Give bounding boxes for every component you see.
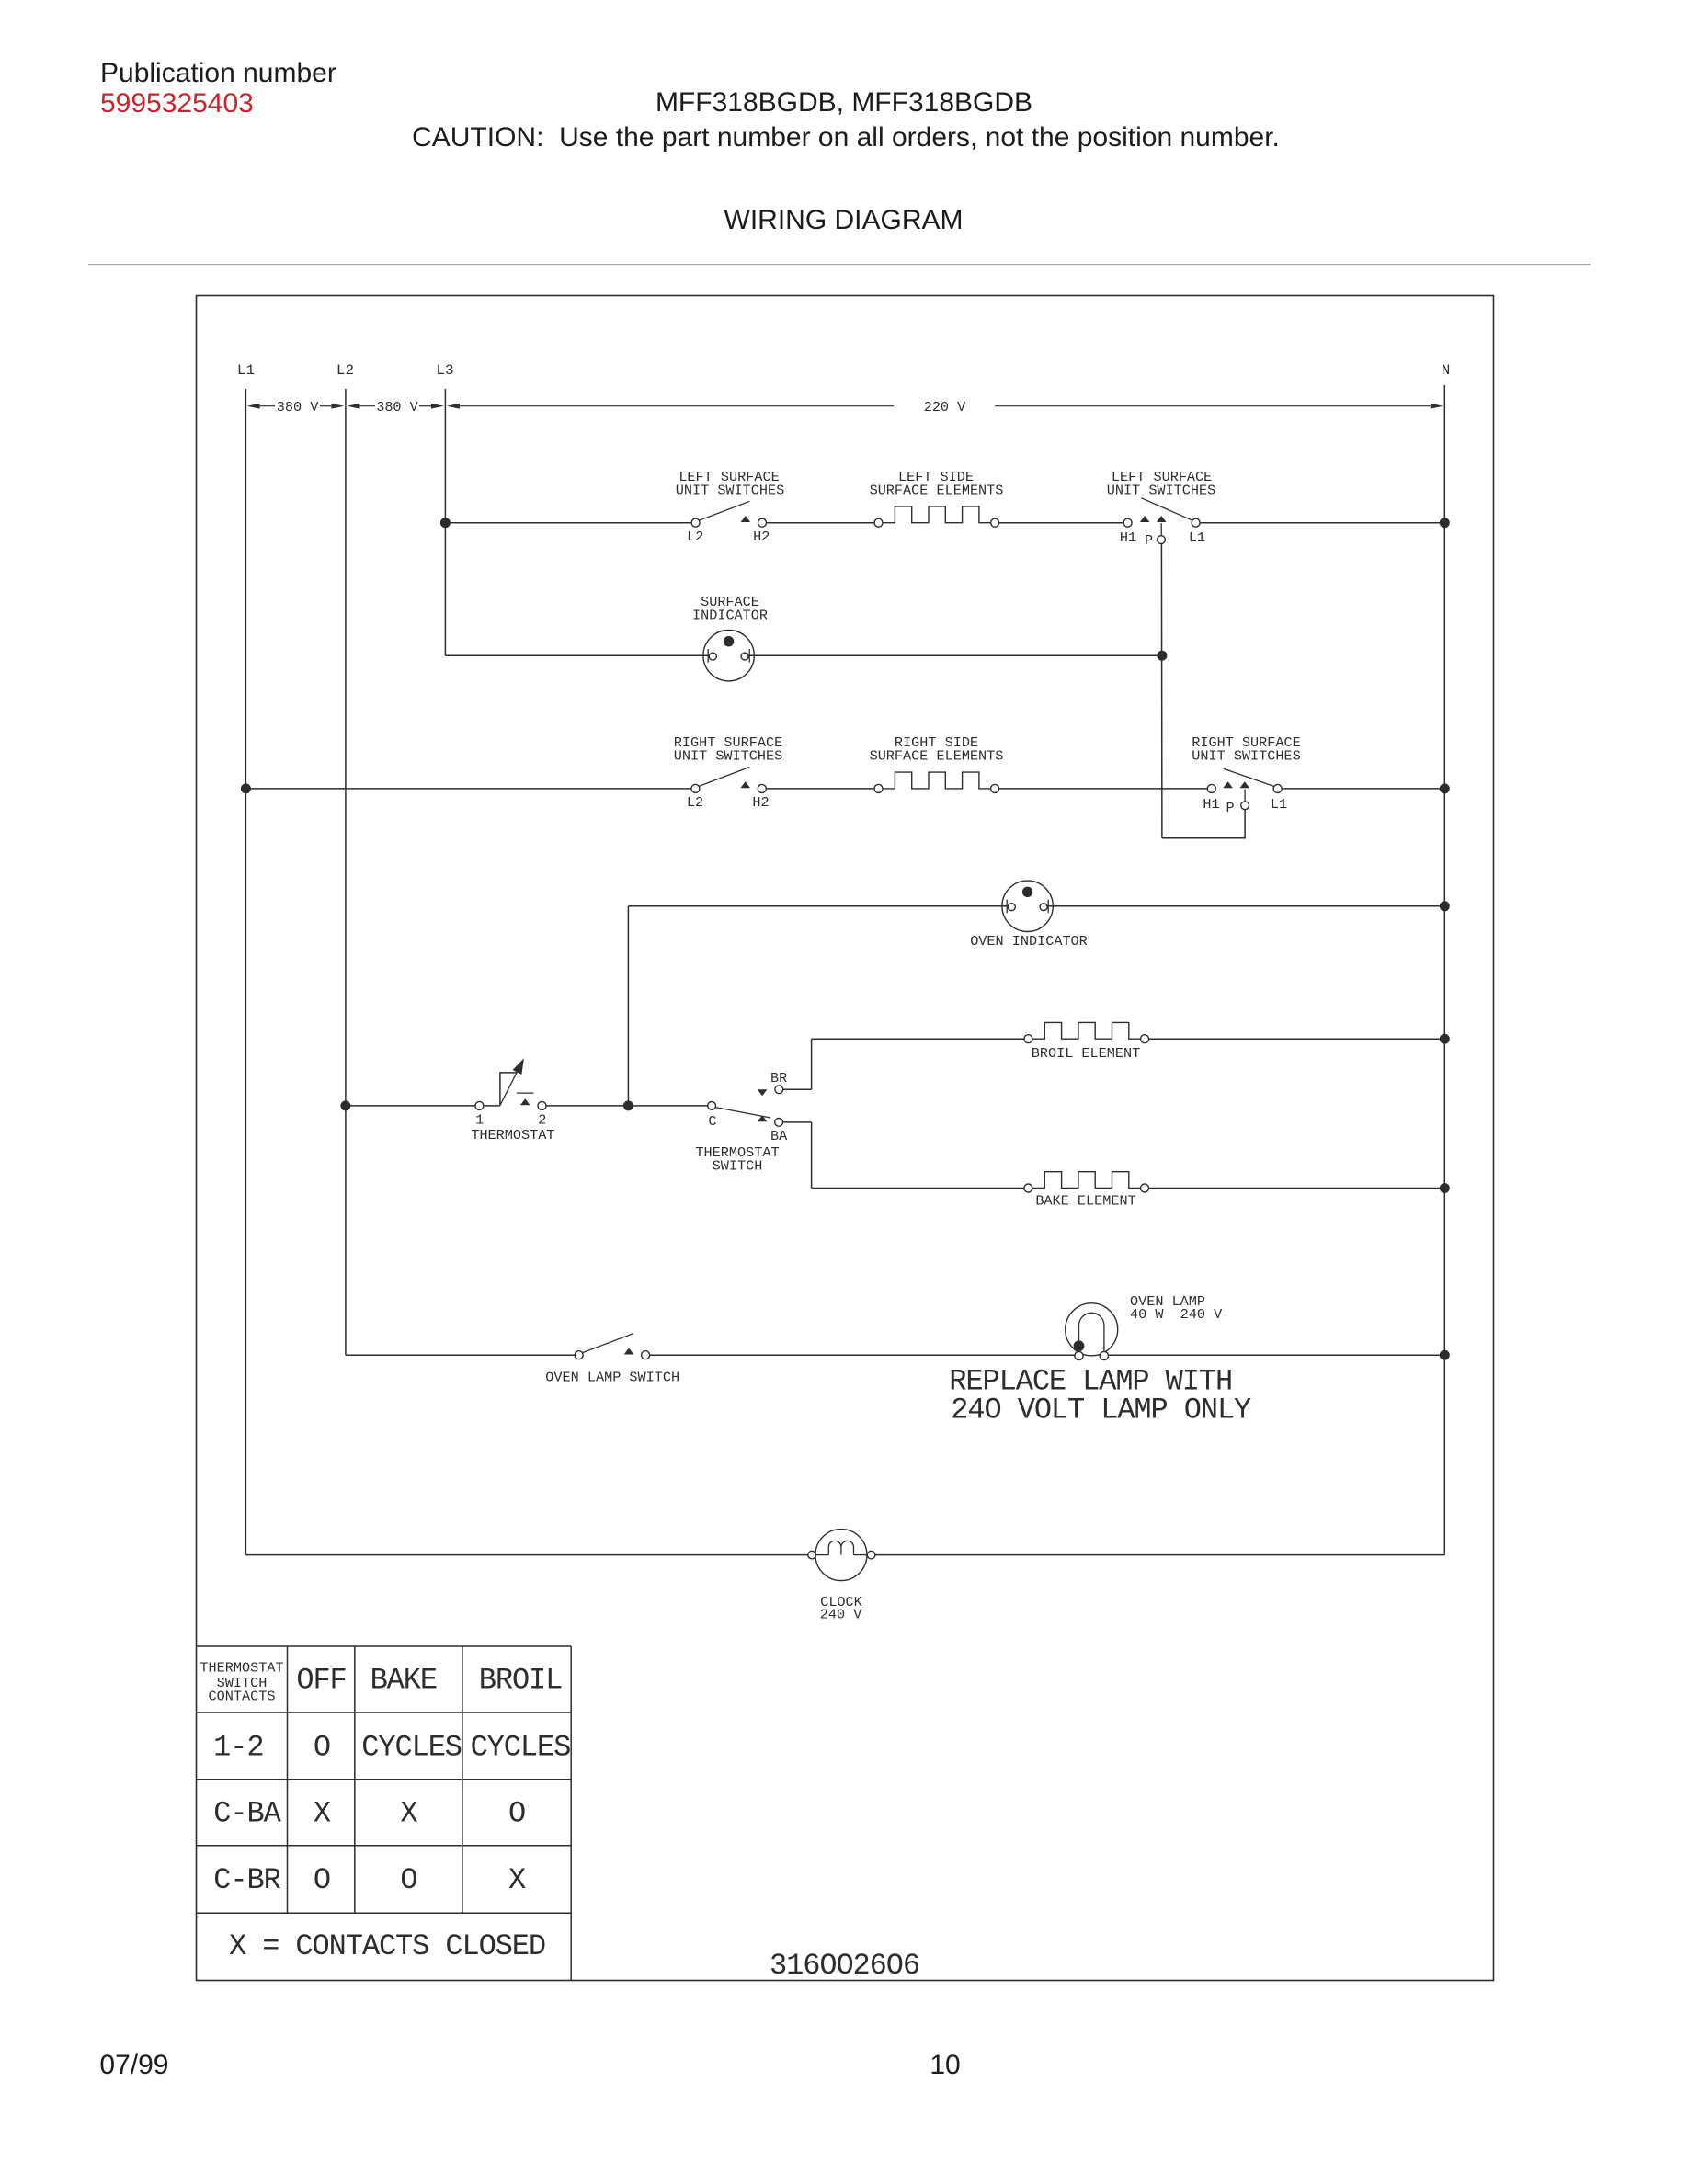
wire row2 element to right switch <box>999 788 1208 790</box>
wire L3 corner to surface indicator <box>445 654 708 656</box>
oven lamp terminal dot <box>1074 1341 1084 1351</box>
svg-text:316OO26O6: 316OO26O6 <box>770 1949 919 1983</box>
bus line L1 <box>245 389 246 1555</box>
wire row1 from L1 contact to N <box>1200 522 1444 524</box>
dimension wire L2-L3 left part <box>359 405 375 407</box>
svg-text:THERMOSTAT: THERMOSTAT <box>471 1127 554 1143</box>
svg-text:UNIT SWITCHES: UNIT SWITCHES <box>674 748 782 765</box>
switch: right surface unit switch L2-H2 contact mark <box>740 781 750 788</box>
switch: left surface unit switch L2-H2 contact mark <box>741 516 751 522</box>
switch: left surface unit switch L2-H2 blade <box>699 501 749 520</box>
svg-text:X: X <box>400 1797 417 1831</box>
svg-text:SWITCH: SWITCH <box>713 1157 763 1174</box>
svg-text:BAKE: BAKE <box>371 1664 437 1698</box>
clock motor body <box>815 1530 867 1581</box>
svg-text:MFF318BGDB, MFF318BGDB: MFF318BGDB, MFF318BGDB <box>656 87 1032 118</box>
svg-text:L1: L1 <box>1189 529 1205 546</box>
switch: right surface unit switch L2-H2 pivot contact <box>691 784 700 792</box>
svg-text:O: O <box>314 1863 330 1897</box>
switch row2 pilot contact P <box>1244 789 1246 802</box>
wire row2 from L1 contact to N <box>1282 788 1444 790</box>
thermostat contact 2 <box>538 1101 546 1109</box>
svg-text:OVEN LAMP SWITCH: OVEN LAMP SWITCH <box>545 1370 679 1386</box>
wire BA to bake riser <box>783 1121 812 1123</box>
oven lamp terminals <box>1075 1351 1083 1359</box>
thermostat switch common contact C <box>708 1102 716 1110</box>
switch H1-P-L1 blade <box>1141 498 1192 521</box>
clock motor right terminal <box>867 1551 875 1559</box>
thermostat contact mark <box>520 1098 530 1105</box>
thermostat actuator arrow <box>500 1068 519 1105</box>
switch H1-P-L1 contact marks <box>1140 516 1150 522</box>
dimension arrows at L3 <box>431 404 444 409</box>
wire broil riser <box>811 1039 813 1089</box>
wire L2 corner to oven lamp switch <box>346 1354 575 1356</box>
wire surface indicator to P drop <box>749 654 1162 656</box>
svg-text:BA: BA <box>770 1128 788 1144</box>
node: junction indicator wire / P drop line <box>1158 651 1167 660</box>
oven indicator lamp body <box>1002 881 1053 931</box>
svg-text:10: 10 <box>930 2050 960 2080</box>
svg-text:P: P <box>1145 532 1153 549</box>
switch: right surface unit switch H1-P-L1 fixed contact H1 <box>1207 784 1215 792</box>
svg-text:Publication number: Publication number <box>100 58 336 88</box>
switch H1-P-L1 pivot contact L1 <box>1192 518 1200 527</box>
wire thermostat 1 to riser <box>484 1105 500 1107</box>
thermostat switch bake contact BA <box>775 1119 783 1127</box>
svg-text:C-BR: C-BR <box>213 1863 280 1897</box>
svg-text:07/99: 07/99 <box>99 2050 168 2080</box>
heating element: broil element terminals and coil <box>1024 1035 1032 1043</box>
switch: left surface unit switch L2-H2 pivot contact <box>691 518 700 527</box>
dimension wire L1-L2 right part <box>320 405 331 407</box>
svg-text:UNIT SWITCHES: UNIT SWITCHES <box>676 483 784 499</box>
wire: P hook rise to row2 P contact <box>1244 810 1246 838</box>
svg-text:SURFACE ELEMENTS: SURFACE ELEMENTS <box>870 483 1004 499</box>
svg-text:O: O <box>314 1731 330 1765</box>
node: junction row2 / N <box>1440 784 1449 793</box>
svg-text:40 W 240 V: 40 W 240 V <box>1130 1306 1223 1323</box>
svg-text:INDICATOR: INDICATOR <box>692 608 768 624</box>
switch H1-P-L1 pilot contact P <box>1160 523 1162 536</box>
svg-text:O: O <box>400 1863 416 1897</box>
wire row1 element to right switch <box>999 522 1124 524</box>
surface indicator lamp body <box>703 631 754 681</box>
bus line N (neutral) <box>1443 385 1445 1555</box>
svg-text:220 V: 220 V <box>924 399 966 415</box>
svg-text:CONTACTS: CONTACTS <box>209 1689 276 1705</box>
thermostat switch BA contact mark <box>758 1115 768 1121</box>
wire oven indicator horizontal left part <box>628 905 1007 907</box>
svg-text:BAKE ELEMENT: BAKE ELEMENT <box>1035 1193 1135 1210</box>
node: junction oven lamp / N <box>1440 1350 1449 1359</box>
svg-text:1: 1 <box>475 1112 484 1129</box>
switch row2 contact marks <box>1223 781 1233 788</box>
svg-text:CYCLES: CYCLES <box>361 1731 462 1765</box>
svg-text:H2: H2 <box>753 529 770 545</box>
svg-text:BROIL ELEMENT: BROIL ELEMENT <box>1032 1045 1140 1062</box>
svg-text:N: N <box>1442 362 1451 379</box>
svg-text:UNIT SWITCHES: UNIT SWITCHES <box>1192 748 1300 765</box>
node: junction L1 / row2 <box>241 784 250 793</box>
svg-text:L3: L3 <box>436 362 453 379</box>
thermostat switch BR contact mark <box>758 1089 768 1096</box>
wire row1 switch to element <box>767 522 875 524</box>
svg-text:UNIT SWITCHES: UNIT SWITCHES <box>1107 483 1215 499</box>
oven indicator lamp right terminal <box>1047 900 1049 914</box>
wire oven lamp switch to lamp <box>650 1354 1075 1356</box>
svg-text:CYCLES: CYCLES <box>471 1731 571 1765</box>
switch row2 blade <box>1224 768 1274 786</box>
svg-text:H1: H1 <box>1203 796 1219 813</box>
switch: left surface unit switch L2-H2 fixed contact <box>758 518 767 527</box>
svg-text:C-BA: C-BA <box>213 1797 281 1831</box>
svg-text:X: X <box>314 1797 331 1831</box>
svg-text:BROIL: BROIL <box>479 1664 563 1698</box>
node: junction row1 / N <box>1440 518 1449 528</box>
bus line L3 <box>444 389 446 655</box>
wire clock to N <box>875 1554 1444 1556</box>
node: junction L2 / thermostat row <box>341 1101 350 1110</box>
svg-text:CAUTION: Use the part number: CAUTION: Use the part number on all orde… <box>412 122 1280 153</box>
wire oven indicator to N <box>1048 905 1444 907</box>
svg-text:L2: L2 <box>687 794 703 811</box>
switch: left surface unit switch H1-P-L1 fixed contact H1 <box>1123 518 1132 527</box>
svg-text:1-2: 1-2 <box>213 1731 263 1765</box>
wire broil row left <box>812 1038 1024 1040</box>
svg-text:L2: L2 <box>687 529 703 545</box>
svg-text:WIRING DIAGRAM: WIRING DIAGRAM <box>724 205 964 235</box>
switch: right surface unit switch L2-H2 fixed contact <box>758 784 766 792</box>
wire row2 from L1 to left switch <box>245 788 691 790</box>
switch row2 pivot contact L1 <box>1273 784 1282 792</box>
heating element: bake element terminals and coil <box>1024 1184 1032 1192</box>
heating element: right side surface elements terminals and coil <box>874 784 883 792</box>
dimension wire L3-N left part <box>460 405 894 407</box>
wire thermostat to C contact <box>546 1105 708 1107</box>
svg-text:5995325403: 5995325403 <box>100 88 254 119</box>
switch: right surface unit switch L2-H2 blade <box>699 768 749 787</box>
svg-text:SURFACE ELEMENTS: SURFACE ELEMENTS <box>870 748 1004 765</box>
wire: P drop from row1 switch down to hook <box>1160 544 1163 838</box>
thermostat switch blade <box>715 1108 770 1118</box>
wire L2 to thermostat <box>346 1105 475 1107</box>
svg-text:240 V: 240 V <box>820 1606 862 1622</box>
svg-text:380 V: 380 V <box>277 399 319 415</box>
clock motor baseline stubs <box>815 1554 828 1556</box>
node: junction broil / N <box>1440 1034 1449 1043</box>
dimension wire L2-L3 right part <box>419 405 431 407</box>
header rule <box>88 264 1591 265</box>
node: junction bake / N <box>1440 1184 1449 1193</box>
dimension arrows at L2 <box>331 404 344 409</box>
wire bake row left <box>812 1188 1024 1189</box>
switch: oven lamp switch contact mark <box>624 1348 634 1355</box>
table: thermostat switch contacts - outer and grid lines <box>197 1645 572 1647</box>
svg-text:BR: BR <box>770 1070 787 1086</box>
svg-text:L1: L1 <box>237 362 255 379</box>
svg-text:H2: H2 <box>752 794 769 811</box>
svg-text:THERMOSTAT: THERMOSTAT <box>200 1660 283 1677</box>
svg-text:24O VOLT LAMP ONLY: 24O VOLT LAMP ONLY <box>951 1393 1251 1428</box>
oven lamp bulb envelope <box>1066 1303 1118 1356</box>
heating element: left side surface elements terminals and coil <box>874 518 883 527</box>
svg-text:L2: L2 <box>336 362 354 379</box>
wire row1 from L3 to left switch <box>445 522 691 524</box>
switch: oven lamp switch fixed contact <box>642 1351 650 1359</box>
switch: oven lamp switch pivot contact <box>575 1351 583 1359</box>
dimension arrow at L1 <box>247 404 260 409</box>
surface indicator lamp right terminal <box>748 649 750 663</box>
wire broil row right to N <box>1149 1038 1445 1040</box>
dimension wire L1-L2 left part <box>260 405 275 407</box>
node: junction oven-indicator drop / thermostat row <box>623 1101 633 1110</box>
svg-text:2: 2 <box>538 1112 546 1129</box>
svg-text:X = CONTACTS CLOSED: X = CONTACTS CLOSED <box>229 1929 545 1963</box>
svg-text:P: P <box>1226 800 1234 816</box>
wire BR to broil riser <box>783 1088 812 1090</box>
node: junction L3 / row1 <box>440 518 450 528</box>
oven indicator lamp left terminal <box>1006 900 1008 914</box>
wire: P hook horizontal <box>1162 837 1246 839</box>
clock motor terminals <box>808 1551 816 1559</box>
wire row2 switch to element <box>766 788 874 790</box>
wire clock row from L1 <box>245 1554 807 1556</box>
thermostat switch broil contact BR <box>775 1086 783 1094</box>
clock motor winding <box>828 1541 853 1554</box>
switch: oven lamp switch blade <box>582 1334 633 1353</box>
svg-text:L1: L1 <box>1271 796 1287 813</box>
thermostat contact 1 <box>475 1101 484 1109</box>
oven indicator lamp lens dot <box>1022 887 1032 896</box>
svg-text:380 V: 380 V <box>376 399 418 415</box>
dimension arrow at N <box>1431 404 1443 409</box>
svg-text:X: X <box>508 1863 526 1897</box>
bus line L2 <box>345 389 347 1355</box>
wire oven indicator corner drop <box>627 906 629 1106</box>
svg-text:C: C <box>708 1113 716 1130</box>
node: junction oven indicator / N <box>1440 902 1449 911</box>
diagram border box <box>197 296 1494 1981</box>
thermostat step symbol <box>500 1073 517 1106</box>
svg-text:OVEN INDICATOR: OVEN INDICATOR <box>970 933 1088 950</box>
surface indicator lamp left terminal <box>707 649 709 663</box>
wire bake riser <box>811 1122 813 1189</box>
svg-text:OFF: OFF <box>296 1664 346 1698</box>
surface indicator lamp lens dot <box>724 637 733 646</box>
svg-text:H1: H1 <box>1120 529 1136 546</box>
wire oven lamp to N <box>1109 1354 1445 1356</box>
dimension wire L3-N right part <box>995 405 1431 407</box>
svg-text:O: O <box>508 1797 525 1831</box>
wire bake row right to N <box>1149 1188 1445 1189</box>
oven lamp filament <box>1079 1313 1104 1355</box>
